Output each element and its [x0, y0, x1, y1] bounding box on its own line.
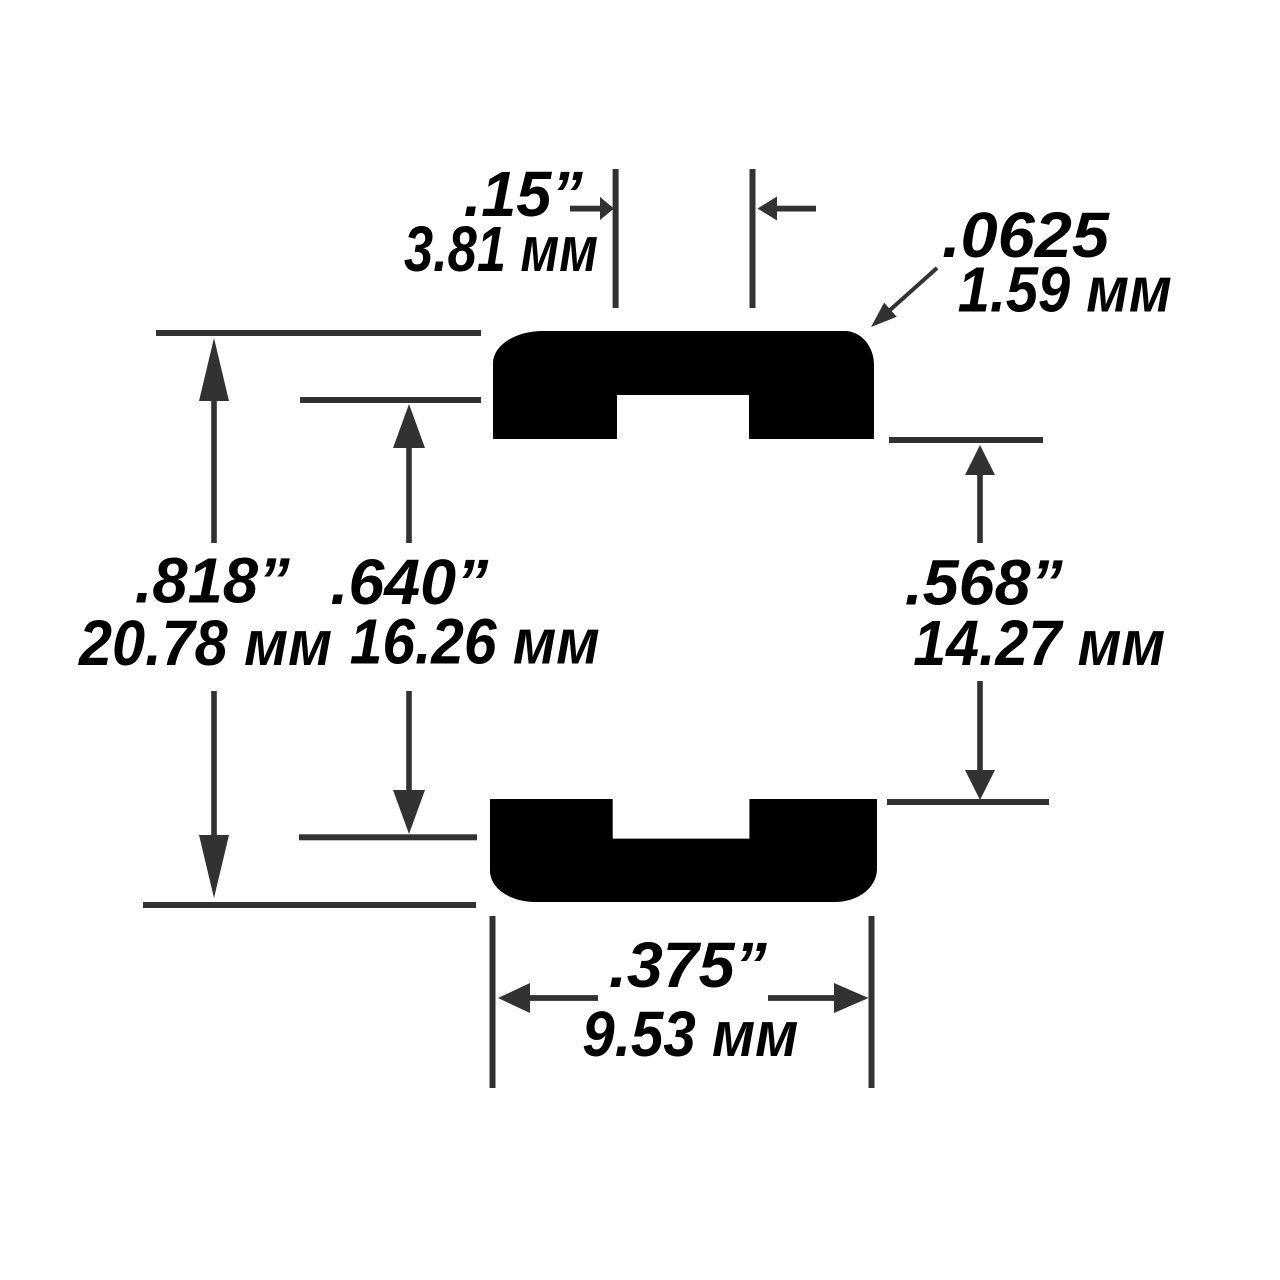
dimension arrow .568 (vertical, two heads): [965, 445, 995, 800]
extension line .568 bottom: [887, 799, 1049, 805]
extension line .640 top: [300, 397, 481, 403]
extension line .818 top: [156, 330, 481, 336]
svg-text:.818”: .818”: [135, 545, 290, 617]
svg-text:16.26 мм: 16.26 мм: [350, 606, 600, 678]
extension line .375 left vertical: [490, 916, 496, 1088]
extension line notch-right vertical: [750, 169, 756, 308]
extension line notch-left vertical: [613, 169, 619, 308]
svg-text:.375”: .375”: [609, 929, 767, 1001]
dimension arrow .640 (vertical, two heads): [393, 404, 425, 834]
svg-text:1.59 мм: 1.59 мм: [958, 254, 1172, 326]
svg-text:20.78 мм: 20.78 мм: [78, 607, 332, 679]
dimension arrow .818 (vertical, two heads): [199, 338, 229, 898]
extension line .568 top: [889, 437, 1043, 443]
arrow .15 left (points right): [570, 197, 614, 220]
arrow .375 left (points left): [498, 983, 598, 1013]
extension line .640 bottom: [299, 834, 477, 840]
extension line .818 bottom: [143, 902, 476, 908]
extension line .375 right vertical: [869, 916, 875, 1088]
svg-text:3.81 мм: 3.81 мм: [404, 213, 598, 285]
bottom profile (channel lower half, black cross-section): [490, 799, 877, 902]
arrow .375 right (points right): [768, 983, 869, 1013]
svg-text:9.53 мм: 9.53 мм: [582, 998, 798, 1070]
leader arrow to corner radius: [871, 268, 937, 327]
svg-text:14.27 мм: 14.27 мм: [913, 607, 1165, 679]
arrow .15 right (points left): [758, 197, 817, 221]
top profile (channel upper half, black cross-section): [493, 331, 874, 439]
